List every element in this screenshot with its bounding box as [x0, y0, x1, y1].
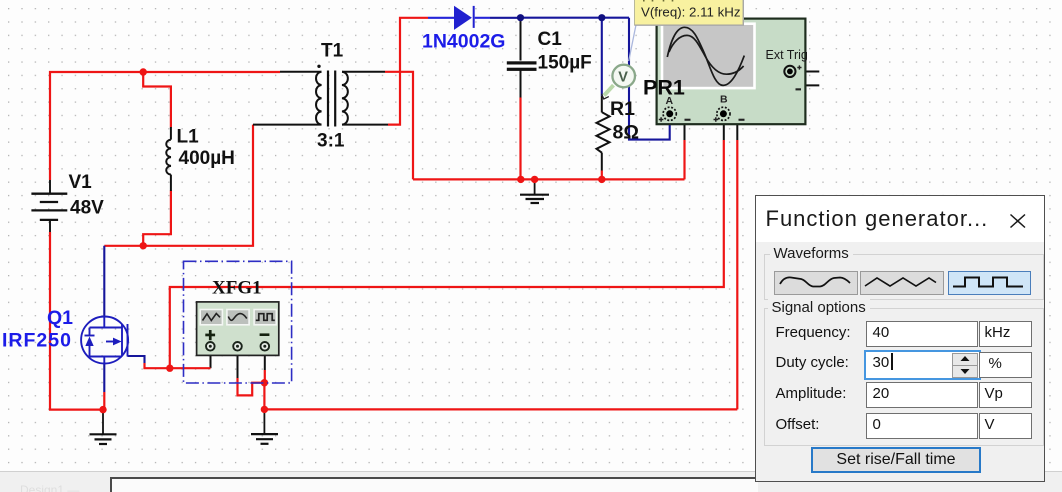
XFG button square [254, 310, 276, 325]
oscilloscope PR1 box [657, 19, 806, 125]
wire scope channel B plus down [723, 121, 725, 140]
wire scope channel A plus [629, 18, 670, 140]
wire XFG common jog [237, 350, 239, 378]
svg-text:B: B [720, 94, 728, 106]
bottom window frame corner [110, 477, 758, 492]
probe PR1 circle [604, 85, 614, 95]
wire R1 top [601, 18, 603, 96]
waveform button triangle [860, 271, 944, 296]
wire B minus to bottom rail [736, 140, 738, 409]
svg-text:PR1: PR1 [643, 76, 685, 100]
wire junction to L1 top [143, 72, 171, 128]
wire Q1 source [103, 364, 105, 393]
offset row [776, 416, 820, 433]
wire scope channel A minus to ground rail [676, 113, 685, 140]
battery V1 [31, 180, 67, 232]
XFG minus mark [260, 333, 270, 336]
set rise/fall button [811, 447, 981, 473]
wire battery bottom to ground rail [50, 232, 103, 410]
svg-text:48V: 48V [70, 197, 104, 218]
wire scope channel B minus [730, 113, 738, 140]
wire XFG plus terminal to gate node [210, 350, 212, 368]
diode D1 1N4002G [428, 6, 490, 30]
dialog shadow continuation [755, 481, 756, 492]
waveforms label [770, 245, 853, 262]
wire secondary top to ground rail [385, 72, 413, 180]
svg-text:T1: T1 [321, 41, 344, 62]
resistor R1 [597, 112, 610, 153]
bottom strip background [0, 471, 1062, 492]
junction dot R1 bottom [598, 176, 605, 183]
scope screen [662, 24, 755, 88]
wire C1 bottom lead [520, 70, 522, 98]
XFG button triangle [200, 310, 222, 325]
svg-text:1N4002G: 1N4002G [422, 31, 505, 53]
wire top rail black lead into T1 primary [280, 71, 322, 73]
faint text ghost bottom-left [20, 483, 79, 492]
XFG1 dashed selection box [184, 261, 292, 383]
junction dot C1 bottom [517, 176, 524, 183]
wire L1 bottom to drain node [143, 191, 171, 246]
wire ext trig stubs [796, 71, 820, 73]
tooltip callout line [629, 25, 636, 61]
tooltip V(freq) [635, 0, 744, 25]
svg-text:3:1: 3:1 [317, 131, 345, 152]
wire R1 bottom [601, 153, 603, 171]
XFG terminal common [233, 342, 242, 351]
wire bottom rail right [264, 408, 737, 410]
wire secondary bottom to diode [388, 18, 428, 125]
wire drain horizontal node [104, 125, 253, 246]
dialog title [766, 206, 989, 232]
function generator dialog [755, 195, 1046, 482]
svg-text:C1: C1 [538, 29, 563, 50]
junction dot R1 top [598, 14, 605, 21]
wire T1 primary bottom lead [253, 124, 322, 126]
svg-text:Ext Trig: Ext Trig [766, 48, 808, 62]
junction dot C1 top [517, 14, 524, 21]
wire XFG ground drop [263, 383, 265, 410]
wire T1 secondary top lead [342, 71, 385, 73]
frequency row [776, 324, 851, 341]
XFG terminal plus [206, 342, 215, 351]
duty cycle row [776, 354, 849, 371]
svg-text:XFG1: XFG1 [212, 278, 262, 299]
svg-text:Q1: Q1 [47, 307, 73, 329]
junction dot ground rail left [99, 406, 106, 413]
inductor L1 [166, 127, 171, 191]
wire battery top to top rail [50, 72, 280, 180]
ground 2 (output rail) [520, 179, 549, 203]
svg-text:V(freq): 2.11 kHz: V(freq): 2.11 kHz [641, 5, 741, 20]
svg-text:V1: V1 [69, 172, 93, 193]
transformer T1 [316, 71, 348, 127]
junction dot ground 2 [531, 176, 538, 183]
ground 3 (XFG) [251, 409, 278, 443]
XFG button sine [227, 310, 249, 325]
wire Q1 gate [128, 356, 145, 363]
svg-text:V: V [618, 69, 628, 85]
XFG1 green instrument box [197, 302, 279, 356]
svg-text:150µF: 150µF [538, 52, 592, 73]
waveform big [667, 27, 744, 85]
waveform button square (selected) [948, 271, 1032, 296]
duty spinner [952, 353, 978, 366]
ground 1 (battery/Q1) [90, 410, 117, 444]
dialog body gray [756, 242, 1044, 481]
signal options label [768, 299, 870, 316]
wire T1 secondary bottom lead [342, 124, 388, 126]
XFG plus mark [205, 334, 215, 337]
wire ground rail [413, 178, 685, 180]
wire output node horizontal [521, 17, 630, 19]
XFG terminal minus [261, 342, 270, 351]
waveform small [669, 35, 744, 74]
signal options groupbox [764, 308, 1044, 446]
wire C1 bottom to ground rail [519, 98, 521, 180]
wire B plus long run to gate node [170, 140, 724, 368]
junction dot drain node [140, 242, 147, 249]
wire diode cathode to C1 node [490, 17, 521, 19]
junction dot gate node [166, 365, 173, 372]
amplitude row [776, 385, 847, 402]
junction dot top L1 [140, 68, 147, 75]
svg-text:R1: R1 [610, 98, 635, 120]
svg-text:400µH: 400µH [179, 148, 235, 169]
svg-text:A: A [666, 95, 674, 107]
waveforms groupbox [764, 254, 1044, 300]
waveform button sine [774, 271, 858, 296]
svg-text:8Ω: 8Ω [613, 121, 639, 143]
dialog close X [1008, 213, 1028, 229]
MOSFET Q1 [81, 317, 128, 364]
svg-text:L1: L1 [177, 127, 200, 148]
wire Q1 drain [103, 246, 105, 317]
wire XFG minus terminal [264, 350, 266, 370]
wire C1 top lead [520, 18, 522, 61]
junction dot XFG minus [261, 379, 268, 386]
T1 polarity dot [317, 65, 320, 68]
svg-text:IRF250: IRF250 [2, 330, 72, 352]
capacitor C1 [507, 61, 537, 71]
junction dot XFG ground [261, 406, 268, 413]
ext trig terminal [784, 66, 795, 77]
